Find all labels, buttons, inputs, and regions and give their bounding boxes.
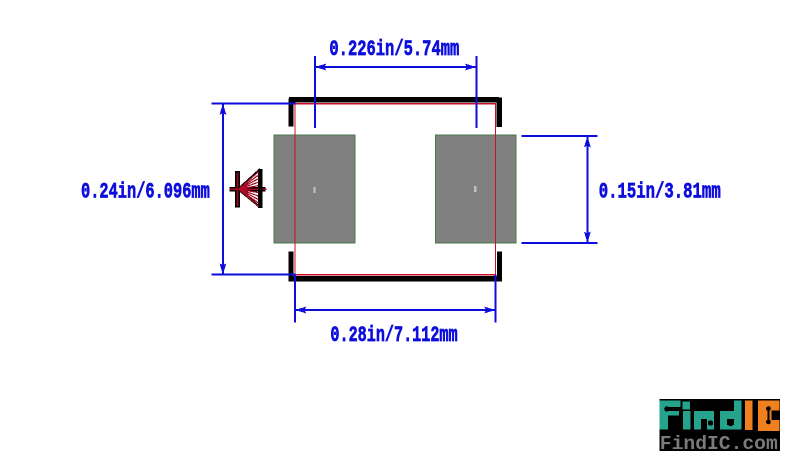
svg-text:0.28in/7.112mm: 0.28in/7.112mm [330,323,457,348]
courtyard outline (red rectangle) [295,104,496,275]
right dim top extension line [521,135,597,137]
logo letter d (teal) [720,400,742,429]
diode triangle red fan lines [239,172,259,207]
right dim bottom extension line [521,242,597,244]
bottom dim left extension line [294,275,296,323]
top dim arrow left [315,64,326,71]
left dim top extension line [212,103,296,105]
logo letter C (orange) [758,400,780,431]
diode polarity symbol [230,169,267,208]
logo letter F (teal) [660,400,681,429]
logo letter n (teal) [694,411,714,429]
left dim bottom extension line [212,274,296,276]
diode triangle outline lower hypotenuse [238,189,260,207]
diode triangle right black bar [258,169,263,208]
logo C via dots and trace [766,406,771,424]
silkscreen bottom-left corner stub [289,252,294,282]
logo F via dot [664,406,669,411]
silkscreen bottom-right corner stub [497,252,502,282]
diode cathode bar red core [236,173,238,206]
bottom dim horizontal line [295,309,495,311]
silkscreen top-right corner stub [496,98,502,127]
logo n via dot [708,420,713,425]
left dim arrow down [220,263,227,274]
top dim right extension line [475,56,477,128]
logo d via dot [728,421,733,426]
pad 2 (right, gray) [436,135,516,243]
right dim arrow up [584,136,591,147]
pad 1 number label [313,187,315,193]
pad 2 number label [474,186,477,192]
svg-text:0.15in/3.81mm: 0.15in/3.81mm [599,180,721,205]
svg-text:0.24in/6.096mm: 0.24in/6.096mm [81,179,210,204]
logo black box [660,399,781,451]
logo letter I (orange) [745,400,753,430]
diode lead red core line [230,188,267,190]
left dim vertical line [222,104,224,274]
diode cathode bar (vertical) [235,171,240,207]
bottom dim right extension line [495,275,497,323]
top dim arrow right [465,64,476,71]
right dim vertical line [586,137,588,243]
svg-text:0.226in/5.74mm: 0.226in/5.74mm [329,37,459,62]
silkscreen top bar [289,97,499,103]
pad 1 (left, gray) [274,135,355,243]
top dim left extension line [314,56,316,128]
diode lead bar (horizontal) [230,187,266,192]
diode triangle outline upper hypotenuse [238,169,260,189]
svg-text:FindIC.com: FindIC.com [660,433,778,455]
right dim arrow down [584,232,591,243]
bottom dim arrow left [295,307,306,314]
silkscreen top-left corner stub [289,99,294,127]
bottom dim arrow right [484,307,495,314]
dimension lines (blue) [212,56,598,322]
logo letter i (teal) [682,401,690,429]
silkscreen bottom bar [289,276,503,281]
top dim horizontal line [315,66,476,68]
dimension arrowheads (blue) [220,64,591,314]
diode triangle red apex wedge [237,185,244,193]
left dim arrow up [220,104,227,115]
FindIC logo [660,399,781,455]
